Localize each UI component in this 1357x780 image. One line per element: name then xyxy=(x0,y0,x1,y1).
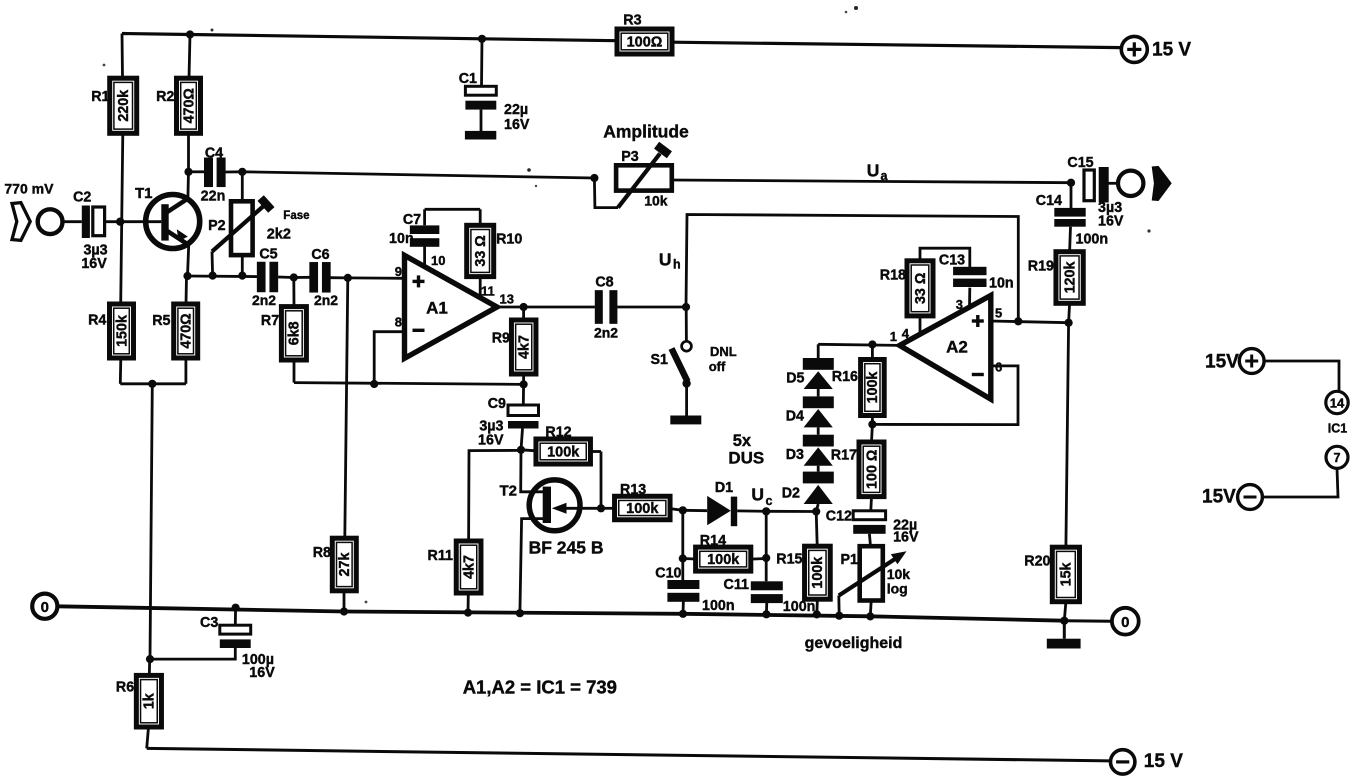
svg-text:10k: 10k xyxy=(644,193,668,209)
svg-text:C6: C6 xyxy=(311,247,329,263)
svg-text:470Ω: 470Ω xyxy=(181,88,197,123)
svg-text:DNL: DNL xyxy=(710,344,737,359)
svg-text:A1: A1 xyxy=(426,299,448,318)
svg-text:7: 7 xyxy=(1334,451,1341,465)
svg-text:22n: 22n xyxy=(201,189,226,205)
svg-text:R7: R7 xyxy=(261,313,279,329)
svg-text:15V: 15V xyxy=(1205,352,1239,373)
svg-text:R17: R17 xyxy=(831,448,857,464)
svg-text:2k2: 2k2 xyxy=(267,227,291,243)
svg-text:100n: 100n xyxy=(702,598,735,614)
svg-text:R19: R19 xyxy=(1028,259,1054,275)
svg-text:C13: C13 xyxy=(939,253,965,269)
svg-text:100k: 100k xyxy=(707,552,740,568)
svg-text:C9: C9 xyxy=(488,396,506,412)
svg-text:3: 3 xyxy=(956,297,963,312)
svg-text:R9: R9 xyxy=(492,331,510,347)
svg-text:C12: C12 xyxy=(826,509,852,525)
svg-text:Amplitude: Amplitude xyxy=(603,122,689,142)
svg-text:R4: R4 xyxy=(88,312,106,328)
svg-text:P3: P3 xyxy=(621,149,639,165)
svg-text:BF 245 B: BF 245 B xyxy=(529,538,604,558)
svg-text:R1: R1 xyxy=(91,89,109,105)
svg-text:100 Ω: 100 Ω xyxy=(864,450,880,489)
svg-text:R10: R10 xyxy=(496,232,522,248)
svg-text:1k: 1k xyxy=(142,693,158,709)
svg-text:4k7: 4k7 xyxy=(461,555,477,579)
svg-text:5x: 5x xyxy=(733,432,752,450)
svg-text:C14: C14 xyxy=(1036,193,1062,209)
svg-text:h: h xyxy=(673,258,681,272)
svg-text:10n: 10n xyxy=(389,231,414,247)
svg-text:IC1: IC1 xyxy=(1328,422,1348,436)
svg-text:0: 0 xyxy=(41,599,49,616)
svg-text:4: 4 xyxy=(902,326,910,341)
svg-text:C5: C5 xyxy=(259,247,277,263)
svg-text:U: U xyxy=(867,161,880,181)
svg-text:120k: 120k xyxy=(1062,262,1078,294)
svg-text:470Ω: 470Ω xyxy=(179,313,195,348)
svg-text:U: U xyxy=(659,249,672,269)
svg-text:33 Ω: 33 Ω xyxy=(473,235,489,266)
svg-text:DUS: DUS xyxy=(728,449,764,468)
svg-text:C1: C1 xyxy=(459,71,477,87)
svg-text:2n2: 2n2 xyxy=(252,292,276,308)
svg-text:D2: D2 xyxy=(782,486,800,502)
svg-text:100k: 100k xyxy=(626,501,659,517)
svg-text:1: 1 xyxy=(890,329,897,344)
svg-text:A1,A2 = IC1 = 739: A1,A2 = IC1 = 739 xyxy=(463,677,617,698)
svg-text:2n2: 2n2 xyxy=(314,292,338,308)
svg-text:C8: C8 xyxy=(595,275,613,291)
svg-text:R16: R16 xyxy=(832,369,858,385)
svg-text:T2: T2 xyxy=(499,483,517,500)
svg-text:U: U xyxy=(751,485,764,505)
svg-text:22µ: 22µ xyxy=(504,102,528,118)
svg-text:T1: T1 xyxy=(135,185,153,202)
svg-text:770 mV: 770 mV xyxy=(4,181,54,197)
svg-text:D4: D4 xyxy=(786,409,804,425)
svg-text:D1: D1 xyxy=(715,480,733,496)
svg-text:33 Ω: 33 Ω xyxy=(913,273,929,304)
svg-text:16V: 16V xyxy=(81,256,107,272)
svg-text:15 V: 15 V xyxy=(1144,751,1183,772)
svg-text:5: 5 xyxy=(995,306,1002,321)
svg-text:C10: C10 xyxy=(655,566,681,582)
svg-text:100n: 100n xyxy=(783,599,816,615)
svg-text:R12: R12 xyxy=(545,425,571,441)
svg-text:D5: D5 xyxy=(786,371,804,387)
svg-text:8: 8 xyxy=(395,315,402,330)
svg-text:D3: D3 xyxy=(786,447,804,463)
svg-text:a: a xyxy=(881,169,889,183)
svg-text:16V: 16V xyxy=(1098,214,1124,230)
svg-text:C15: C15 xyxy=(1067,155,1093,171)
svg-text:R20: R20 xyxy=(1024,554,1050,570)
svg-text:100Ω: 100Ω xyxy=(627,35,663,51)
svg-text:R3: R3 xyxy=(623,13,641,29)
svg-text:16V: 16V xyxy=(504,117,530,133)
svg-text:10: 10 xyxy=(431,253,445,268)
svg-text:100k: 100k xyxy=(547,445,580,461)
svg-text:2n2: 2n2 xyxy=(594,325,618,341)
svg-text:14: 14 xyxy=(1330,396,1345,411)
svg-text:15V: 15V xyxy=(1202,487,1236,508)
svg-text:R11: R11 xyxy=(428,548,453,564)
svg-text:R8: R8 xyxy=(313,545,331,561)
svg-text:9: 9 xyxy=(395,264,402,279)
svg-text:150k: 150k xyxy=(114,315,130,347)
svg-text:R2: R2 xyxy=(156,89,174,105)
svg-text:C2: C2 xyxy=(73,190,91,206)
svg-text:R14: R14 xyxy=(700,533,726,549)
svg-text:C11: C11 xyxy=(724,577,749,593)
svg-text:Fase: Fase xyxy=(283,210,309,222)
svg-text:P2: P2 xyxy=(208,218,226,234)
svg-text:log: log xyxy=(887,581,908,597)
svg-text:gevoeligheid: gevoeligheid xyxy=(805,635,903,652)
svg-text:27k: 27k xyxy=(337,553,353,577)
svg-text:16V: 16V xyxy=(478,433,504,449)
svg-text:6k8: 6k8 xyxy=(287,321,303,345)
svg-text:c: c xyxy=(766,494,773,508)
svg-text:220k: 220k xyxy=(116,90,132,122)
svg-text:16V: 16V xyxy=(249,665,275,681)
svg-text:R18: R18 xyxy=(880,268,906,284)
svg-text:15 V: 15 V xyxy=(1152,40,1191,61)
svg-text:13: 13 xyxy=(500,292,514,307)
svg-text:S1: S1 xyxy=(651,352,669,368)
svg-text:C4: C4 xyxy=(205,146,223,162)
svg-text:C7: C7 xyxy=(403,212,421,228)
svg-text:11: 11 xyxy=(481,284,495,299)
svg-text:4k7: 4k7 xyxy=(517,335,533,359)
svg-text:15k: 15k xyxy=(1059,562,1075,586)
svg-text:10n: 10n xyxy=(989,276,1014,292)
svg-text:C3: C3 xyxy=(200,615,218,631)
svg-text:100k: 100k xyxy=(865,372,881,404)
svg-text:R15: R15 xyxy=(776,552,802,568)
svg-text:R6: R6 xyxy=(116,680,134,696)
svg-text:off: off xyxy=(709,359,726,374)
svg-text:16V: 16V xyxy=(893,530,919,546)
svg-text:0: 0 xyxy=(1121,614,1129,631)
svg-text:100n: 100n xyxy=(1076,232,1109,248)
svg-text:R13: R13 xyxy=(620,482,646,498)
svg-text:100k: 100k xyxy=(810,557,826,589)
svg-text:P1: P1 xyxy=(841,552,859,568)
svg-text:A2: A2 xyxy=(946,338,968,357)
svg-text:R5: R5 xyxy=(152,313,170,329)
